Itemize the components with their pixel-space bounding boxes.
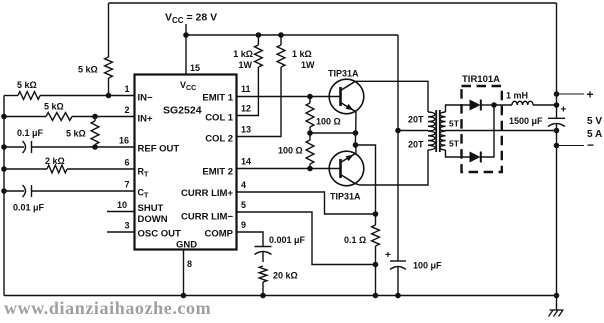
svg-text:6: 6 xyxy=(125,158,130,168)
svg-text:TIP31A: TIP31A xyxy=(330,192,361,202)
svg-text:20T: 20T xyxy=(408,115,424,125)
wire secondary center tap to output return xyxy=(446,130,557,133)
node R11 at ground bus xyxy=(260,293,266,299)
wire pin 16 to IC xyxy=(32,146,135,148)
wire R7 bottom lead to pin 13 xyxy=(237,67,281,137)
svg-text:EMIT 1: EMIT 1 xyxy=(202,93,233,104)
transformer T1 secondary winding 5T top xyxy=(440,112,446,131)
wire pin 2 IN+ to IC xyxy=(72,116,135,118)
wire emitter bus horizontal xyxy=(310,132,356,134)
transformer T1 secondary winding 5T bottom xyxy=(440,131,446,150)
wire bottom ground bus xyxy=(4,295,557,297)
wire left ground rail xyxy=(3,96,5,296)
wire right output rail lower (return) xyxy=(556,124,558,296)
wire pin 7 CT to IC xyxy=(32,190,135,192)
diode D2 triangle xyxy=(470,152,481,163)
wire D1 cathode to rectifier output xyxy=(481,104,494,106)
svg-text:COMP: COMP xyxy=(205,229,234,240)
transistor Q1 TIP31A circle xyxy=(329,79,364,114)
wire Q2 collector to primary bottom xyxy=(355,150,428,185)
wire feedback resistor top lead xyxy=(108,3,110,57)
wire pin 16 lead left to cap xyxy=(4,146,24,148)
ground stub xyxy=(556,296,558,311)
svg-text:4: 4 xyxy=(241,180,246,190)
svg-text:2: 2 xyxy=(125,105,130,115)
wire secondary top terminal xyxy=(446,105,470,112)
node VCC junction at pin 15 xyxy=(183,32,189,38)
svg-text:IN+: IN+ xyxy=(138,114,154,125)
diode D2 cathode bar xyxy=(480,152,482,163)
svg-text:TIR101A: TIR101A xyxy=(462,74,500,85)
svg-text:SG2524: SG2524 xyxy=(163,105,202,117)
transistor Q2 collector diagonal xyxy=(341,175,356,184)
node emitter bus at R8/R9 xyxy=(307,130,313,136)
svg-text:1 kΩ: 1 kΩ xyxy=(233,49,253,59)
capacitor C1 0.1uF curved plate xyxy=(23,141,26,153)
transistor Q1 collector diagonal xyxy=(341,81,356,90)
wire pin 10 SHUT DOWN stub xyxy=(107,211,135,213)
wire pin 8 GND to bottom bus xyxy=(183,250,185,296)
svg-text:IN−: IN− xyxy=(138,93,154,104)
wire output + terminal lead xyxy=(557,93,585,95)
svg-text:14: 14 xyxy=(241,157,251,167)
svg-text:DOWN: DOWN xyxy=(138,214,168,225)
svg-text:−: − xyxy=(587,138,594,152)
resistor R6 1k ohm 1W to COL 1 xyxy=(255,45,263,67)
wire pin 2 IN+ lead left xyxy=(4,116,46,118)
wire pin 6 RT lead left xyxy=(4,168,47,170)
node emitter bus at Q1 emitter xyxy=(353,130,359,136)
node output + terminal xyxy=(554,91,560,97)
wire emitter bus vertical xyxy=(355,133,357,145)
node feedback junction on pin 1 wire xyxy=(106,93,112,99)
wire top feedback from output + to 5k divider xyxy=(109,2,557,4)
svg-text:8: 8 xyxy=(187,259,192,269)
svg-text:5T: 5T xyxy=(449,119,460,129)
wire C3 to R11 xyxy=(262,252,264,262)
svg-text:3: 3 xyxy=(125,221,130,231)
resistor R4 5k ohm REF divider xyxy=(91,121,99,145)
transformer T1 primary winding 20T top xyxy=(428,112,435,131)
svg-text:15: 15 xyxy=(190,63,200,73)
node emitter bus at Q2 emitter xyxy=(353,142,359,148)
transistor Q2 emitter diagonal xyxy=(341,153,357,162)
capacitor C5 1500uF curved plate xyxy=(548,124,565,127)
capacitor C3 0.001uF curved plate xyxy=(255,252,272,255)
capacitor C1 0.1uF straight plate xyxy=(31,141,33,153)
svg-text:5 A: 5 A xyxy=(587,129,602,140)
diode D1 triangle xyxy=(470,100,481,111)
wire pin 1 IN- to IC xyxy=(40,95,135,97)
svg-text:5 kΩ: 5 kΩ xyxy=(78,65,98,75)
svg-text:7: 7 xyxy=(125,180,130,190)
node divider junction on pin 2 wire xyxy=(92,114,98,120)
node pin 8 at ground bus xyxy=(181,293,187,299)
svg-text:9: 9 xyxy=(241,220,246,230)
node ground rail at pin 2 wire xyxy=(1,114,7,120)
wire Q2 emitter up to bus xyxy=(355,145,357,153)
transistor Q2 base bar xyxy=(339,159,342,178)
svg-text:100 Ω: 100 Ω xyxy=(316,117,341,127)
node sense at ground bus xyxy=(373,293,379,299)
svg-text:13: 13 xyxy=(241,125,251,135)
node R4 bottom on pin 16 wire xyxy=(92,144,98,150)
resistor R11 20k ohm xyxy=(259,266,267,282)
svg-text:TIP31A: TIP31A xyxy=(328,69,359,79)
wire R6 top lead xyxy=(257,35,259,45)
wire pin 14 EMIT 2 to Q2 base xyxy=(237,168,341,170)
node ground rail at pin 16 wire xyxy=(1,144,7,150)
wire pin 6 RT to IC xyxy=(67,168,135,170)
resistor R5 2k ohm timing xyxy=(47,165,67,173)
wire pin 4 CURR LIM+ to sense top xyxy=(237,192,376,214)
wire R7 top lead xyxy=(280,35,282,45)
resistor R10 0.1 ohm sense xyxy=(372,225,380,246)
node VCC bus at R7 xyxy=(278,32,284,38)
wire inductor to output rail xyxy=(533,104,557,106)
svg-text:5 kΩ: 5 kΩ xyxy=(17,80,37,90)
svg-text:100 μF: 100 μF xyxy=(413,261,442,271)
wire emitter bus to sense resistor xyxy=(356,145,376,214)
wire feedback resistor bottom lead xyxy=(108,78,110,96)
rectifier TIR101A dashed box xyxy=(462,86,502,172)
resistor R8 100 ohm xyxy=(306,103,314,127)
svg-text:11: 11 xyxy=(241,84,251,94)
node ground rail at pin 6 wire xyxy=(1,166,7,172)
wire R6 bottom lead to pin 12 xyxy=(237,67,258,116)
wire pin 15 to IC xyxy=(185,35,187,74)
wire R4 top lead xyxy=(94,117,96,122)
node sense resistor top xyxy=(373,211,379,217)
wire pin 3 OSC OUT stub xyxy=(107,231,135,233)
svg-text:100 Ω: 100 Ω xyxy=(278,146,303,156)
wire pin 1 IN- lead left xyxy=(4,95,18,97)
transistor Q2 TIP31A circle xyxy=(329,151,364,186)
wire Q1 emitter down to bus xyxy=(355,112,357,133)
svg-text:20 kΩ: 20 kΩ xyxy=(273,271,298,281)
resistor R2 5k ohm feedback xyxy=(105,57,113,78)
transistor Q1 base bar xyxy=(339,87,342,106)
wire R4 bottom lead xyxy=(94,145,96,148)
svg-text:1 mH: 1 mH xyxy=(506,91,528,101)
wire pin 11 EMIT 1 to Q1 base xyxy=(237,96,341,98)
svg-text:0.1 μF: 0.1 μF xyxy=(17,128,44,138)
node C4 at ground bus xyxy=(395,293,401,299)
svg-text:1: 1 xyxy=(125,84,130,94)
wire R9 top lead xyxy=(309,133,311,140)
capacitor C2 0.01uF curved plate xyxy=(23,185,26,197)
transistor Q1 emitter arrow xyxy=(346,104,354,110)
svg-text:0.1 Ω: 0.1 Ω xyxy=(344,235,366,245)
svg-text:REF OUT: REF OUT xyxy=(138,144,180,155)
svg-text:1500 μF: 1500 μF xyxy=(509,116,543,126)
node base Q2 / R9 junction xyxy=(307,166,313,172)
node return rail at center tap xyxy=(554,128,560,134)
node primary center tap junction xyxy=(395,128,401,134)
capacitor C5 1500uF top plate xyxy=(548,117,565,119)
wire secondary bottom terminal xyxy=(446,150,470,157)
diode D1 cathode bar xyxy=(480,100,482,111)
node rectifier output junction xyxy=(491,102,497,108)
wire pin 9 COMP lead xyxy=(237,232,263,247)
svg-text:5 kΩ: 5 kΩ xyxy=(44,102,64,112)
resistor R9 100 ohm xyxy=(306,140,314,164)
wire C4 to ground bus xyxy=(397,267,399,296)
wire pin 5 CURR LIM- to sense bottom xyxy=(237,212,376,265)
wire VCC horizontal bus xyxy=(186,34,398,36)
svg-text:+: + xyxy=(561,105,567,116)
ground symbol earth hatches xyxy=(549,310,564,317)
node base Q1 / R8 junction xyxy=(307,94,313,100)
svg-text:12: 12 xyxy=(241,104,251,114)
wire R11 to ground bus xyxy=(262,282,264,296)
svg-text:1W: 1W xyxy=(239,60,253,70)
capacitor C4 100uF curved plate xyxy=(390,267,406,270)
svg-text:CURR LIM+: CURR LIM+ xyxy=(181,188,233,199)
svg-text:10: 10 xyxy=(117,200,127,210)
svg-text:COL 2: COL 2 xyxy=(205,134,233,145)
node ground rail at pin 7 wire xyxy=(1,188,7,194)
svg-text:0.001 μF: 0.001 μF xyxy=(269,235,306,245)
svg-text:0.01 μF: 0.01 μF xyxy=(13,203,45,213)
transistor Q2 emitter arrow xyxy=(346,155,354,161)
wire R8 top lead xyxy=(309,97,311,104)
capacitor C4 100uF top plate xyxy=(390,260,406,262)
node VCC bus at R6 xyxy=(256,32,262,38)
svg-text:16: 16 xyxy=(119,136,129,146)
wire VCC stub below label xyxy=(185,24,187,35)
wire rectifier to inductor xyxy=(494,104,512,106)
svg-text:OSC OUT: OSC OUT xyxy=(138,229,181,240)
wire center tap to primary xyxy=(398,130,428,132)
resistor R1 5k ohm to IN- xyxy=(18,92,40,100)
wire right output rail upper (+5V) xyxy=(556,3,558,118)
wire R10 bottom lead xyxy=(375,246,377,296)
svg-text:1W: 1W xyxy=(301,60,315,70)
wire R10 top lead xyxy=(375,214,377,225)
node sense resistor bottom xyxy=(373,262,379,268)
svg-text:www.dianziaihaozhe.com: www.dianziaihaozhe.com xyxy=(4,298,211,318)
svg-text:5T: 5T xyxy=(449,139,460,149)
svg-text:CURR LIM−: CURR LIM− xyxy=(181,212,233,223)
wire output - terminal lead xyxy=(557,145,585,147)
wire R8 bottom lead xyxy=(309,127,311,133)
node output rail at ground bus xyxy=(554,293,560,299)
wire Q1 collector to primary top xyxy=(355,81,428,112)
svg-text:+: + xyxy=(385,250,391,261)
transformer T1 primary winding 20T bottom xyxy=(428,131,435,150)
wire pin 7 CT lead left to cap xyxy=(4,190,24,192)
svg-text:GND: GND xyxy=(176,240,197,251)
transformer T1 core bar left xyxy=(435,110,437,152)
IC U1 SG2524 body xyxy=(135,75,237,250)
svg-text:20T: 20T xyxy=(408,140,424,150)
svg-text:EMIT 2: EMIT 2 xyxy=(202,167,233,178)
svg-text:5 kΩ: 5 kΩ xyxy=(66,129,86,139)
inductor L1 1 mH xyxy=(512,101,533,105)
wire R9 bottom lead xyxy=(309,164,311,169)
svg-text:SHUT: SHUT xyxy=(138,203,164,214)
capacitor C3 0.001uF top plate xyxy=(255,246,272,248)
transistor Q1 emitter diagonal xyxy=(341,103,357,112)
node output - terminal xyxy=(554,143,560,149)
resistor R7 1k ohm 1W to COL 2 xyxy=(277,45,285,67)
resistor R3 5k ohm to IN+ xyxy=(46,113,72,121)
svg-text:5 V: 5 V xyxy=(587,116,602,127)
svg-text:2 kΩ: 2 kΩ xyxy=(45,156,65,166)
node inductor at output rail xyxy=(554,102,560,108)
capacitor C2 0.01uF straight plate xyxy=(31,185,33,197)
svg-text:+: + xyxy=(587,88,594,102)
svg-text:5: 5 xyxy=(241,200,246,210)
wire D2 cathode up to junction xyxy=(481,105,494,157)
svg-text:COL 1: COL 1 xyxy=(205,113,234,124)
wire VCC down to center tap and bypass cap xyxy=(397,35,399,261)
svg-text:1 kΩ: 1 kΩ xyxy=(292,49,312,59)
transformer T1 core bar right xyxy=(439,110,441,152)
